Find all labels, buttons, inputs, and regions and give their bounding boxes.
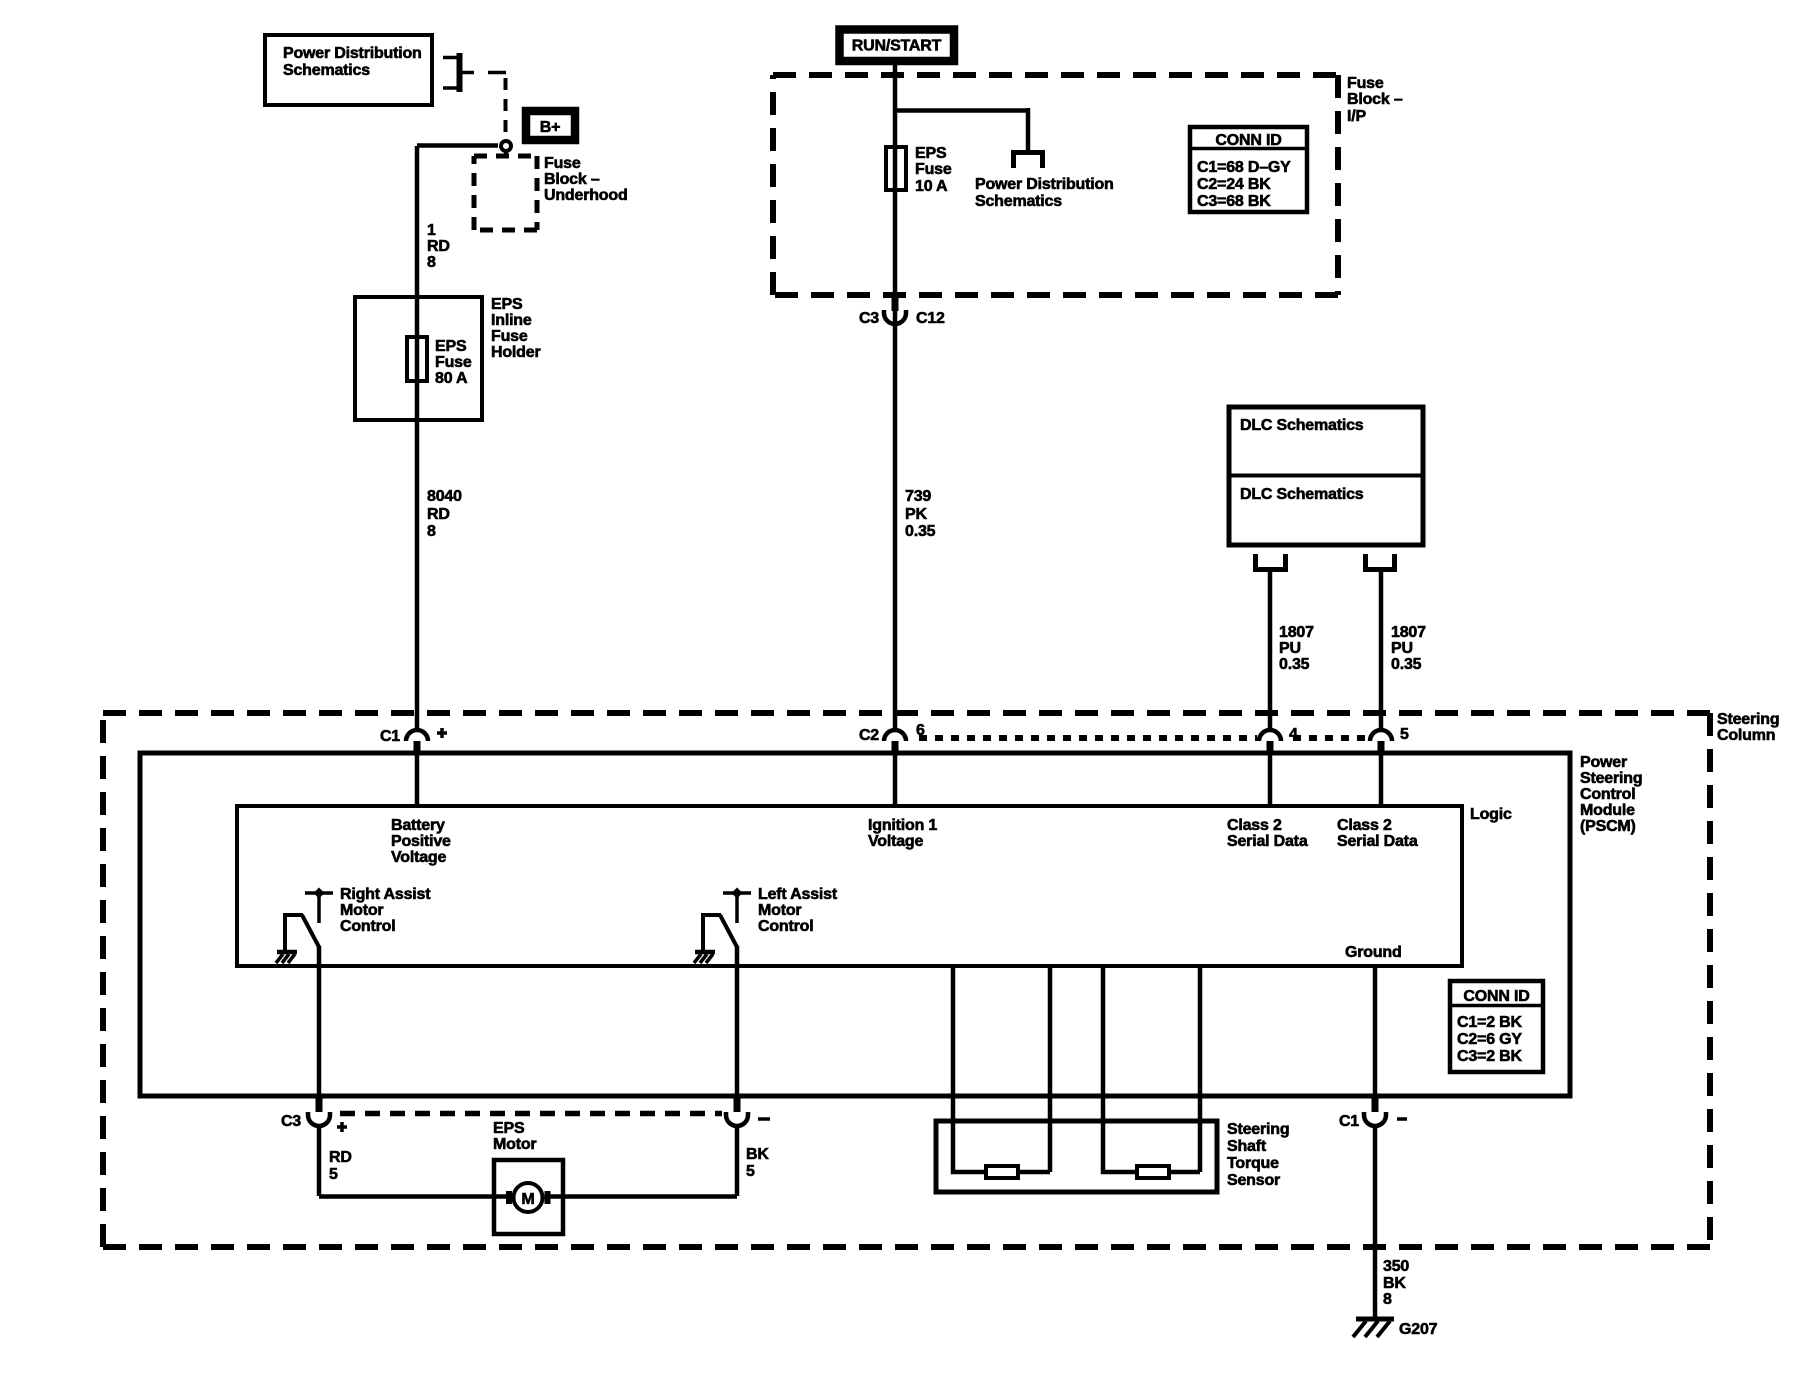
svg-text:C3: C3	[281, 1113, 301, 1130]
svg-text:C1: C1	[1339, 1113, 1359, 1130]
svg-text:EPS: EPS	[435, 338, 467, 355]
svg-text:EPS: EPS	[491, 296, 523, 313]
svg-text:Inline: Inline	[491, 312, 532, 329]
svg-text:Steering: Steering	[1227, 1121, 1289, 1138]
svg-text:(PSCM): (PSCM)	[1580, 818, 1636, 835]
svg-text:Fuse: Fuse	[1347, 75, 1384, 92]
svg-text:1: 1	[427, 222, 436, 239]
svg-text:Torque: Torque	[1227, 1155, 1279, 1172]
svg-text:Power Distribution: Power Distribution	[283, 45, 422, 62]
svg-text:C3=68 BK: C3=68 BK	[1197, 193, 1271, 210]
svg-text:G207: G207	[1399, 1321, 1438, 1338]
svg-text:5: 5	[1400, 726, 1409, 743]
svg-text:5: 5	[746, 1163, 755, 1180]
svg-text:PK: PK	[905, 506, 927, 523]
svg-text:Left Assist: Left Assist	[758, 886, 838, 903]
svg-text:Schematics: Schematics	[283, 62, 370, 79]
svg-text:Serial Data: Serial Data	[1227, 833, 1308, 850]
svg-text:8: 8	[427, 523, 436, 540]
svg-text:80 A: 80 A	[435, 370, 468, 387]
svg-text:Fuse: Fuse	[435, 354, 472, 371]
svg-text:Class 2: Class 2	[1227, 817, 1282, 834]
svg-text:C2: C2	[859, 727, 879, 744]
svg-text:Motor: Motor	[340, 902, 383, 919]
svg-text:Motor: Motor	[493, 1136, 536, 1153]
svg-text:C2=24 BK: C2=24 BK	[1197, 176, 1271, 193]
svg-text:DLC Schematics: DLC Schematics	[1240, 417, 1364, 434]
svg-text:RD: RD	[427, 506, 450, 523]
svg-text:Logic: Logic	[1470, 806, 1512, 823]
svg-text:Voltage: Voltage	[868, 833, 924, 850]
svg-text:M: M	[521, 1191, 534, 1208]
svg-text:Block –: Block –	[1347, 91, 1403, 108]
svg-text:739: 739	[905, 488, 931, 505]
svg-text:Steering: Steering	[1580, 770, 1642, 787]
svg-text:Power Distribution: Power Distribution	[975, 176, 1114, 193]
svg-text:Schematics: Schematics	[975, 193, 1062, 210]
svg-text:Voltage: Voltage	[391, 849, 447, 866]
svg-text:Class 2: Class 2	[1337, 817, 1392, 834]
svg-text:8: 8	[1383, 1291, 1392, 1308]
svg-text:I/P: I/P	[1347, 108, 1366, 125]
svg-text:Control: Control	[1580, 786, 1635, 803]
svg-text:5: 5	[329, 1166, 338, 1183]
svg-text:C1=2 BK: C1=2 BK	[1457, 1014, 1522, 1031]
svg-text:Ignition 1: Ignition 1	[868, 817, 937, 834]
svg-text:Battery: Battery	[391, 817, 445, 834]
svg-text:C3=2 BK: C3=2 BK	[1457, 1048, 1522, 1065]
svg-text:0.35: 0.35	[905, 523, 936, 540]
svg-text:Block –: Block –	[544, 171, 600, 188]
svg-text:Positive: Positive	[391, 833, 451, 850]
svg-text:Motor: Motor	[758, 902, 801, 919]
svg-text:C2=6 GY: C2=6 GY	[1457, 1031, 1522, 1048]
svg-text:Fuse: Fuse	[491, 328, 528, 345]
svg-text:4: 4	[1289, 726, 1298, 743]
svg-text:EPS: EPS	[915, 145, 947, 162]
svg-text:RUN/START: RUN/START	[852, 38, 942, 55]
svg-text:Right Assist: Right Assist	[340, 886, 431, 903]
svg-text:8040: 8040	[427, 488, 462, 505]
svg-text:C3: C3	[859, 310, 879, 327]
svg-text:DLC Schematics: DLC Schematics	[1240, 486, 1364, 503]
svg-text:EPS: EPS	[493, 1120, 525, 1137]
svg-text:Ground: Ground	[1345, 944, 1402, 961]
svg-text:B+: B+	[540, 119, 561, 136]
svg-text:BK: BK	[746, 1146, 769, 1163]
svg-text:Power: Power	[1580, 754, 1627, 771]
svg-text:Steering: Steering	[1717, 711, 1779, 728]
svg-text:Fuse: Fuse	[915, 161, 952, 178]
svg-text:RD: RD	[329, 1149, 352, 1166]
svg-text:10 A: 10 A	[915, 178, 948, 195]
svg-text:Control: Control	[758, 918, 813, 935]
svg-text:8: 8	[427, 254, 436, 271]
svg-text:C12: C12	[916, 310, 945, 327]
svg-text:Module: Module	[1580, 802, 1635, 819]
svg-text:Column: Column	[1717, 727, 1775, 744]
svg-text:C1: C1	[380, 728, 400, 745]
svg-text:0.35: 0.35	[1279, 656, 1310, 673]
svg-text:CONN ID: CONN ID	[1463, 988, 1529, 1005]
svg-text:1807: 1807	[1391, 624, 1426, 641]
svg-text:BK: BK	[1383, 1275, 1406, 1292]
svg-text:PU: PU	[1391, 640, 1413, 657]
svg-text:350: 350	[1383, 1258, 1409, 1275]
svg-text:Underhood: Underhood	[544, 187, 628, 204]
svg-text:Shaft: Shaft	[1227, 1138, 1267, 1155]
svg-text:C1=68 D–GY: C1=68 D–GY	[1197, 159, 1291, 176]
svg-text:Control: Control	[340, 918, 395, 935]
svg-text:1807: 1807	[1279, 624, 1314, 641]
svg-text:Fuse: Fuse	[544, 155, 581, 172]
svg-text:PU: PU	[1279, 640, 1301, 657]
svg-text:Holder: Holder	[491, 344, 540, 361]
svg-text:CONN ID: CONN ID	[1215, 132, 1281, 149]
svg-text:Sensor: Sensor	[1227, 1172, 1280, 1189]
svg-text:RD: RD	[427, 238, 450, 255]
svg-text:Serial Data: Serial Data	[1337, 833, 1418, 850]
svg-text:0.35: 0.35	[1391, 656, 1422, 673]
